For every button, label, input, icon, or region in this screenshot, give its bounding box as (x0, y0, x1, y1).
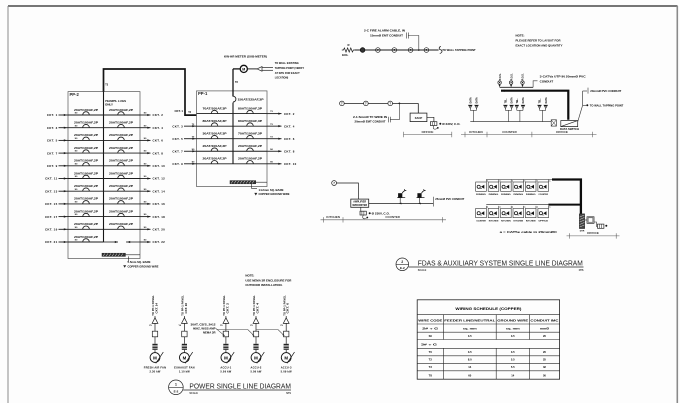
svg-text:ACCU-1: ACCU-1 (220, 366, 231, 370)
svg-text:KITCHEN: KITCHEN (489, 221, 499, 223)
wire stub PP-2 CKT 22 (140, 240, 165, 245)
svg-text:2: 2 (401, 260, 403, 264)
svg-text:a = CAT5e cable in 20mmØC: a = CAT5e cable in 20mmØC (500, 230, 557, 234)
cctv camera row1 DINING (476, 180, 489, 197)
svg-text:CKT. 7: CKT. 7 (172, 149, 183, 153)
conduit tick 25mm (432, 197, 434, 207)
svg-text:2-C FIRE ALARM CABLE, IN: 2-C FIRE ALARM CABLE, IN (364, 28, 405, 32)
svg-text:20AT/100AF,2P: 20AT/100AF,2P (74, 172, 99, 175)
svg-text:SCALE: SCALE (189, 392, 198, 395)
wire stub PP-2 CKT 19 (45, 227, 78, 232)
outlet bus to data switch (470, 121, 551, 123)
P.O.S. bus wire (500, 86, 533, 88)
riser 20mm pvc conduit (582, 91, 584, 105)
breaker PP-2 CKT 15 20AT/100AF,2P (68, 198, 104, 204)
svg-text:KW-HR METER (SUB-METER): KW-HR METER (SUB-METER) (224, 55, 267, 59)
svg-text:CKT. 3: CKT. 3 (172, 124, 183, 128)
svg-text:COPPER GROUND WIRE: COPPER GROUND WIRE (259, 192, 290, 196)
breaker PP-2 CKT 5 20AT/100AF,2P (68, 134, 104, 140)
wire meter to PP-1 main breaker (233, 68, 240, 70)
wiring schedule table frame (417, 300, 559, 379)
convenience outlet at FACP (430, 122, 437, 126)
svg-text:50: 50 (543, 374, 546, 378)
cctv camera row1 DINING (525, 180, 538, 197)
svg-text:DINING: DINING (476, 194, 486, 196)
svg-text:1: 1 (175, 383, 177, 387)
wire stub PP-2 CKT 16 (140, 202, 165, 207)
kw-hr meter M (sub-meter) (240, 65, 247, 72)
svg-text:KITCHEN: KITCHEN (469, 130, 483, 134)
svg-text:COPPER GROUND WIRE: COPPER GROUND WIRE (128, 264, 159, 268)
cctv camera row1 DINING (488, 180, 501, 197)
svg-text:DVR: DVR (580, 231, 585, 233)
panel PP-1 enclosure (197, 91, 268, 187)
breaker PP-2 CKT 17 20AT/100AF,2P (68, 210, 104, 216)
smoke detector 2 (392, 48, 397, 53)
svg-text:20mmØ EMT CONDUIT: 20mmØ EMT CONDUIT (355, 120, 386, 124)
dimension OFFICE (facp) (404, 134, 452, 136)
svg-text:60: 60 (468, 374, 471, 378)
svg-text:OFFICE: OFFICE (538, 221, 548, 223)
breaker PP-1 CKT 7 20AT/100AF,2P (197, 145, 234, 151)
svg-text:PP-1: PP-1 (198, 91, 208, 96)
P.O.S. outlet 2 (509, 73, 513, 87)
svg-text:NEMA 3R: NEMA 3R (203, 331, 216, 335)
svg-text:ACCU-2: ACCU-2 (251, 366, 262, 370)
smoke detector 4 (424, 48, 429, 53)
manual station 3 (388, 101, 393, 106)
svg-text:TEL.: TEL. (517, 98, 519, 103)
breaker PP-2 CKT 19 20AT/100AF,2P (68, 223, 104, 229)
wire stub PP-2 CKT 14 (140, 189, 165, 194)
svg-text:20AT/100AF,2P: 20AT/100AF,2P (74, 134, 99, 137)
svg-text:20AT/100AF,2P: 20AT/100AF,2P (74, 109, 99, 112)
manual station 1 (340, 101, 345, 106)
svg-text:20AT/100AF,2P: 20AT/100AF,2P (74, 223, 99, 226)
svg-text:20AT/100AF,2P: 20AT/100AF,2P (74, 210, 99, 213)
svg-text:20AT/100AF,2P: 20AT/100AF,2P (109, 223, 134, 226)
svg-text:20AT/100AF,2P: 20AT/100AF,2P (74, 185, 99, 188)
svg-text:CKT. 4: CKT. 4 (153, 126, 164, 130)
border frame left (7, 6, 9, 403)
motor branch riser ACCU-3 (280, 295, 294, 374)
outlet hook wire (433, 126, 437, 130)
PP-1 ground bar (230, 181, 256, 184)
svg-text:3.5: 3.5 (511, 334, 515, 338)
wire stub PP-1 CKT 5 (172, 136, 196, 141)
svg-text:DATA: DATA (476, 97, 479, 103)
svg-text:70AT/100AF,3P: 70AT/100AF,3P (238, 133, 263, 136)
speaker 1 (397, 189, 406, 204)
svg-text:GROUND WIRE: GROUND WIRE (497, 318, 528, 322)
breaker PP-2 CKT 18 20AT/100AF,2P (104, 210, 141, 216)
motor branch riser FRESH AIR FAN (144, 295, 166, 374)
breaker PP-2 CKT 9 20AT/100AF,2P (68, 160, 104, 166)
svg-text:WIRE CODE: WIRE CODE (418, 318, 442, 322)
svg-text:CKT. 21: CKT. 21 (45, 240, 58, 244)
svg-text:14.2mm SQ. BARE: 14.2mm SQ. BARE (259, 188, 284, 192)
svg-text:ONLY: ONLY (105, 102, 113, 106)
wire stub PP-2 CKT 4 (140, 125, 163, 130)
svg-text:5.09 kW: 5.09 kW (220, 370, 231, 374)
svg-text:TEL.: TEL. (506, 98, 508, 103)
svg-text:CKT. 6: CKT. 6 (287, 302, 290, 313)
svg-text:80AT/100AF,3P: 80AT/100AF,3P (238, 120, 263, 123)
breaker PP-1 CKT 9 20AT/100AF,2P (197, 158, 234, 164)
svg-text:DATA: DATA (522, 97, 525, 103)
svg-text:70AMPS. LUGS: 70AMPS. LUGS (105, 99, 126, 103)
svg-text:CKT. 14: CKT. 14 (155, 302, 158, 313)
svg-text:3.5: 3.5 (468, 350, 472, 354)
leader CATVa label (533, 81, 537, 88)
breaker PP-2 CKT 4 20AT/100AF,2P (104, 122, 141, 128)
data switch patch box (551, 120, 556, 126)
PP-2 ground bar (102, 253, 125, 256)
svg-text:CKT. 5: CKT. 5 (47, 139, 58, 143)
cctv camera row2 COUNTER (476, 206, 489, 223)
svg-text:KITCHEN: KITCHEN (501, 221, 511, 223)
svg-text:3.5: 3.5 (511, 350, 515, 354)
svg-text:CONDUIT IMC: CONDUIT IMC (530, 318, 558, 322)
svg-text:M: M (284, 355, 288, 360)
svg-text:NTS: NTS (579, 269, 584, 272)
svg-text:20mmØ PVC CONDUIT: 20mmØ PVC CONDUIT (590, 89, 621, 93)
svg-text:14: 14 (468, 365, 471, 369)
svg-text:CKT. 8: CKT. 8 (153, 151, 164, 155)
cctv camera row1 DINING (513, 180, 526, 197)
svg-text:20AT/100AF,2P: 20AT/100AF,2P (74, 122, 99, 125)
panel PP-2 enclosure (68, 92, 140, 259)
svg-text:CKT. 19: CKT. 19 (45, 228, 58, 232)
svg-text:CKT. 12: CKT. 12 (153, 177, 166, 181)
svg-text:DINING: DINING (514, 194, 524, 196)
amplifier outlet (360, 207, 362, 211)
breaker PP-1 CKT 3 80AT/100AF,3P (197, 120, 234, 126)
cctv camera row2 KITCHEN (488, 206, 501, 223)
wire mic to amplifier (337, 183, 359, 199)
svg-text:30AT/100AF,3P: 30AT/100AF,3P (203, 133, 228, 136)
svg-text:DINING: DINING (489, 194, 499, 196)
svg-text:OFFICE: OFFICE (422, 130, 434, 134)
svg-text:P.O.S.: P.O.S. (522, 73, 525, 80)
svg-text:20AT/100AF,2P: 20AT/100AF,2P (109, 147, 134, 150)
breaker PP-2 CKT 3 20AT/100AF,2P (68, 122, 104, 128)
svg-text:CKT. 4: CKT. 4 (256, 302, 259, 313)
svg-text:FACP: FACP (415, 116, 423, 120)
wire stub PP-2 CKT 2 (140, 113, 163, 118)
wire stub PP-2 CKT 12 (140, 176, 165, 181)
svg-text:5.09 kW: 5.09 kW (250, 370, 261, 374)
junction node on FDAS loop (418, 49, 420, 51)
breaker PP-2 CKT 8 20AT/100AF,2P (104, 147, 141, 153)
svg-text:USE NEMA 3R ENCLOSURE FOR: USE NEMA 3R ENCLOSURE FOR (245, 278, 291, 282)
amplifier box (351, 199, 369, 207)
svg-text:OFFICE: OFFICE (587, 231, 599, 235)
svg-text:20AT/100AF,2P: 20AT/100AF,2P (109, 198, 134, 201)
svg-text:T0: T0 (429, 350, 433, 354)
svg-text:3# + G: 3# + G (421, 343, 437, 347)
P.O.S. outlet 3 (521, 73, 525, 87)
breaker PP-2 CKT 11 20AT/100AF,2P (68, 172, 104, 178)
svg-text:CKT. 9: CKT. 9 (172, 162, 183, 166)
feeder wire from PP-1 CKT 1 to PP-2 (104, 69, 197, 115)
svg-text:CKT. 9: CKT. 9 (47, 164, 58, 168)
svg-text:1.10 kW: 1.10 kW (179, 370, 190, 374)
svg-text:150AT/225AF,3P: 150AT/225AF,3P (238, 99, 265, 102)
dimension KITCHEN COUNTER OFFICE (461, 134, 597, 136)
resistor R end-of-line (342, 48, 355, 52)
smoke detector 1 (376, 48, 381, 53)
data switch (560, 121, 579, 132)
wire stub PP-2 CKT 21 (45, 240, 78, 245)
svg-text:W/BOOSTER: W/BOOSTER (352, 204, 367, 207)
svg-text:P.O.S.: P.O.S. (510, 73, 513, 80)
outlet at DVR (598, 224, 604, 228)
svg-text:20AT/100AF,2P: 20AT/100AF,2P (74, 160, 99, 163)
svg-text:CKT. 13: CKT. 13 (45, 189, 58, 193)
svg-text:5.5: 5.5 (511, 365, 515, 369)
svg-text:COUNTER: COUNTER (502, 130, 517, 134)
svg-text:32: 32 (543, 365, 546, 369)
breaker PP-1 CKT 4 80AT/100AF,3P (233, 120, 267, 126)
svg-text:KITCHEN: KITCHEN (326, 215, 340, 219)
svg-text:S0: S0 (429, 334, 433, 338)
alarm bell device (360, 48, 365, 53)
svg-text:T8: T8 (429, 374, 433, 378)
svg-text:DATA: DATA (511, 97, 514, 103)
breaker PP-2 CKT 6 20AT/100AF,2P (104, 134, 141, 140)
svg-text:3-CATVa UTP IN 20mmØ PVC: 3-CATVa UTP IN 20mmØ PVC (540, 75, 586, 79)
leader 2-C fire alarm cable label (408, 36, 419, 51)
svg-text:COUNTER: COUNTER (385, 215, 400, 219)
smoke detector 3 (408, 48, 413, 53)
svg-text:CKT. 18: CKT. 18 (153, 215, 166, 219)
svg-text:5.09 kW: 5.09 kW (281, 370, 292, 374)
PP-1 ground bar connection (256, 181, 267, 183)
wire stub PP-1 CKT 10 (267, 161, 297, 166)
cctv camera row1 DINING (501, 180, 514, 197)
wire monitor to outlet (594, 222, 598, 227)
breaker PP-2 CKT 13 20AT/100AF,2P (68, 185, 104, 191)
svg-text:DATA: DATA (545, 97, 548, 103)
svg-text:P.O.S.: P.O.S. (499, 73, 502, 80)
svg-text:CKT. 4: CKT. 4 (284, 124, 295, 128)
svg-text:CKT. 2: CKT. 2 (226, 302, 229, 313)
svg-text:CKT. 15: CKT. 15 (45, 202, 58, 206)
wire stub PP-2 CKT 11 (45, 176, 78, 181)
svg-text:sq. mm: sq. mm (506, 327, 521, 330)
svg-text:M: M (242, 68, 245, 72)
svg-text:CKT. 16: CKT. 16 (153, 202, 166, 206)
dimension KITCHEN COUNTER (speakers) (321, 219, 447, 221)
svg-text:20AT/100AF,2P: 20AT/100AF,2P (109, 160, 134, 163)
svg-text:Ø 230V, C.O.: Ø 230V, C.O. (372, 211, 390, 215)
data/tel outlet pair 3 (515, 97, 525, 122)
FACP control panel (410, 113, 427, 122)
svg-text:CONDUIT: CONDUIT (540, 79, 554, 83)
wire stub PP-2 CKT 18 (140, 214, 165, 219)
svg-text:CKT. 6: CKT. 6 (153, 139, 164, 143)
breaker PP-1 CKT 6 70AT/100AF,3P (233, 133, 267, 139)
svg-text:80AT/100AF,3P: 80AT/100AF,3P (238, 107, 263, 110)
wire stub PP-2 CKT 13 (45, 189, 78, 194)
data trunk wire (thick) (502, 90, 505, 92)
svg-text:sq. mm: sq. mm (463, 327, 478, 330)
breaker PP-1 CKT 5 30AT/100AF,3P (197, 133, 234, 139)
dimension OFFICE (dvr) (567, 235, 620, 237)
svg-text:15mmØ EMT CONDUIT: 15mmØ EMT CONDUIT (370, 33, 403, 37)
svg-text:20AT/100AF,2P: 20AT/100AF,2P (109, 134, 134, 137)
svg-text:20: 20 (543, 334, 546, 338)
svg-text:CKT. 10: CKT. 10 (153, 164, 166, 168)
data/tel outlet pair 4 (538, 97, 548, 122)
svg-text:PP-2: PP-2 (70, 92, 80, 97)
wire stub PP-1 CKT 4 (267, 124, 295, 129)
svg-text:NOTE:: NOTE: (245, 273, 254, 277)
svg-text:80AT/100AF,3P: 80AT/100AF,3P (203, 120, 228, 123)
wire stub PP-2 CKT 7 (47, 151, 78, 156)
svg-text:NTS: NTS (286, 392, 291, 395)
svg-text:M: M (254, 355, 258, 360)
wire stub PP-2 CKT 10 (140, 163, 165, 168)
breaker PP-2 CKT 20 20AT/100AF,2P (104, 223, 141, 229)
svg-text:T2: T2 (429, 358, 433, 362)
svg-text:DATA: DATA (469, 97, 472, 103)
svg-text:DINING: DINING (501, 194, 511, 196)
svg-text:DINING: DINING (526, 194, 536, 196)
svg-text:EXHAUST FAN: EXHAUST FAN (174, 366, 195, 370)
svg-text:5.5: 5.5 (511, 358, 515, 362)
svg-text:TO WALL TAPPING POINT: TO WALL TAPPING POINT (590, 103, 624, 107)
svg-text:20AT/100AF,2P: 20AT/100AF,2P (203, 145, 228, 148)
title bubble 2/E-2 (396, 258, 409, 271)
svg-text:8.0: 8.0 (468, 358, 472, 362)
wire stub PP-2 CKT 20 (140, 227, 165, 232)
monitor (587, 217, 594, 224)
motor branch riser EXHAUST FAN (174, 295, 195, 374)
cctv camera row2 KITCHEN (525, 206, 538, 223)
svg-text:CKT. 11: CKT. 11 (45, 177, 57, 181)
svg-text:20AT/100AF,2P: 20AT/100AF,2P (109, 109, 134, 112)
svg-text:FDAS & AUXILIARY SYSTEM SINGLE: FDAS & AUXILIARY SYSTEM SINGLE LINE DIAG… (418, 260, 583, 267)
breaker PP-1 CKT 2 80AT/100AF,3P (233, 107, 267, 113)
wire data switch to wall tapping (578, 105, 583, 122)
svg-text:CKT. 10: CKT. 10 (284, 162, 297, 166)
cctv trunk row2 (thick) (548, 204, 581, 206)
svg-text:CKT. 5: CKT. 5 (172, 137, 183, 141)
svg-text:20AT/100AF,2P: 20AT/100AF,2P (238, 145, 263, 148)
svg-text:30AT, CB'S, 2#12: 30AT, CB'S, 2#12 (191, 323, 217, 327)
svg-text:70AT/100AF,3P: 70AT/100AF,3P (203, 107, 228, 110)
ground symbol (123, 265, 126, 268)
breaker PP-2 CKT 2 20AT/100AF,2P (104, 109, 141, 115)
svg-text:60HZ, W/SS AMP: 60HZ, W/SS AMP (193, 327, 216, 331)
breaker PP-1 CKT 1 70AT/100AF,3P (197, 107, 234, 113)
speaker 2 (417, 189, 426, 204)
border frame right (676, 6, 678, 403)
svg-text:CKT. 14: CKT. 14 (153, 189, 166, 193)
wire stub PP-2 CKT 17 (45, 214, 78, 219)
wire break squiggle (439, 46, 442, 53)
svg-text:CKT. 1: CKT. 1 (174, 109, 183, 113)
speaker bus wire (369, 203, 434, 205)
wire stations to FACP (344, 102, 363, 104)
leader TF wire label (390, 103, 399, 119)
svg-text:CKT. 22: CKT. 22 (153, 240, 166, 244)
svg-text:OUTDOOR INSTALLATION.: OUTDOOR INSTALLATION. (245, 283, 282, 287)
wire stub PP-2 CKT 6 (140, 138, 163, 143)
wire stub PP-2 CKT 1 (47, 113, 78, 118)
breaker PP-1 CKT 10 20AT/100AF,2P (233, 158, 267, 164)
svg-text:FEEDER LINE/NEUTRAL: FEEDER LINE/NEUTRAL (444, 318, 496, 322)
svg-text:KITCHEN: KITCHEN (526, 221, 536, 223)
FDAS loop wire (355, 49, 439, 51)
svg-text:NOTE:: NOTE: (516, 34, 525, 38)
wire stub PP-1 CKT 9 (172, 161, 196, 166)
svg-text:E-2: E-2 (400, 266, 405, 270)
svg-text:OFFICE: OFFICE (556, 130, 568, 134)
wire stub PP-2 CKT 15 (45, 202, 78, 207)
wire stub PP-1 CKT 8 (267, 149, 295, 154)
cctv camera row2 KITCHEN (513, 206, 526, 223)
svg-text:20AT/100AF,2P: 20AT/100AF,2P (74, 198, 99, 201)
svg-text:CKT. 16: CKT. 16 (185, 302, 188, 313)
svg-text:Ø 230V, C.O.: Ø 230V, C.O. (442, 122, 460, 126)
svg-text:CKT. 2: CKT. 2 (284, 112, 295, 116)
title bubble 1/E-2 (169, 380, 184, 395)
svg-text:20AT/100AF,2P: 20AT/100AF,2P (238, 158, 263, 161)
DVR unit (579, 214, 584, 229)
wire stub PP-1 CKT 7 (172, 149, 196, 154)
wire stub PP-2 CKT 9 (47, 163, 78, 168)
svg-text:2-1.5mmØ TF WIRE IN: 2-1.5mmØ TF WIRE IN (353, 115, 387, 119)
svg-text:14: 14 (511, 374, 514, 378)
wire stub PP-2 CKT 3 (47, 125, 78, 130)
wire stub PP-2 CKT 5 (47, 138, 78, 143)
svg-text:CKT. 3: CKT. 3 (47, 126, 58, 130)
PP-1 vertical bus (232, 103, 234, 165)
svg-text:E-2: E-2 (174, 390, 179, 394)
outlet hook wire (363, 215, 367, 219)
wire stub PP-1 CKT 3 (172, 124, 196, 129)
svg-text:TAPPING POINT (VERIFY: TAPPING POINT (VERIFY (275, 66, 305, 70)
PP-2 ground bar wire to enclosure (125, 254, 140, 256)
svg-text:AT SITE FOR EXACT: AT SITE FOR EXACT (275, 71, 300, 75)
svg-text:CKT. 1: CKT. 1 (47, 113, 58, 117)
breaker PP-2 CKT 1 20AT/100AF,2P (68, 109, 104, 115)
svg-text:20AT/100AF,2P: 20AT/100AF,2P (109, 122, 134, 125)
svg-text:2.30 kW: 2.30 kW (149, 370, 160, 374)
svg-text:FRESH AIR FAN: FRESH AIR FAN (144, 366, 166, 370)
data/tel outlet pair 2 (504, 97, 514, 122)
wire stub PP-1 CKT 2 (267, 111, 295, 116)
cctv row1 bus wire (486, 179, 552, 181)
svg-text:CKT. 20: CKT. 20 (153, 228, 166, 232)
motor branch riser ACCU-1 (220, 295, 234, 374)
svg-text:mmØ: mmØ (540, 326, 549, 330)
svg-text:M: M (224, 355, 228, 360)
svg-text:2# + G: 2# + G (422, 326, 438, 330)
cctv trunk row1 (thick) (552, 180, 581, 214)
manual station 2 (364, 101, 369, 106)
svg-text:R: R (347, 43, 349, 47)
junction node (399, 103, 401, 105)
data/tel outlet pair 1 (469, 97, 479, 122)
svg-text:WIRING SCHEDULE (COPPER): WIRING SCHEDULE (COPPER) (455, 307, 521, 311)
breaker PP-1 CKT 8 20AT/100AF,2P (233, 145, 267, 151)
svg-text:20AT/100AF,2P: 20AT/100AF,2P (109, 210, 134, 213)
wire stub PP-2 CKT 8 (140, 151, 163, 156)
